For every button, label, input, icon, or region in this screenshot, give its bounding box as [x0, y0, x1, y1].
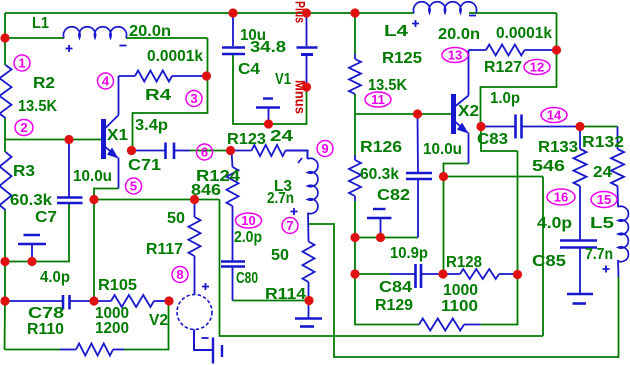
- transistor X2 emitter: [456, 122, 468, 133]
- resistor R114 top lead: [307, 213, 310, 242]
- node dot junction left rail / C78: [0, 296, 9, 305]
- resistor R117 bottom lead: [194, 256, 196, 295]
- source V2 plus mark: [202, 283, 209, 290]
- resistor R127 left lead: [469, 49, 487, 51]
- inductor L3 plus mark: [291, 208, 298, 215]
- node dot junction R128 / C83 leg: [513, 270, 522, 279]
- node dot junction top rail / V1: [302, 8, 311, 17]
- wire bottom-left loop right part: [124, 301, 169, 350]
- svg-text:C71: C71: [128, 157, 161, 174]
- wire node 5 row y=200: [94, 199, 220, 201]
- source V2: [177, 295, 212, 330]
- resistor R125: [349, 59, 361, 94]
- svg-text:10.0u: 10.0u: [73, 168, 112, 185]
- svg-text:L4: L4: [384, 23, 408, 40]
- resistor R126: [349, 160, 361, 196]
- svg-text:L5: L5: [590, 215, 614, 232]
- inductor L5: [618, 206, 628, 261]
- node number 14: [541, 108, 567, 123]
- wire R4 box right side: [133, 38, 208, 151]
- svg-text:R117: R117: [146, 241, 183, 258]
- node dot junction X2 base / C82: [413, 109, 422, 118]
- svg-text:50: 50: [271, 247, 289, 264]
- capacitor C4 top stem: [232, 13, 234, 46]
- battery V1 short plate: [301, 53, 313, 56]
- wire vertical x=355 down: [355, 238, 419, 325]
- capacitor C71 right lead: [174, 150, 190, 152]
- node number 10: [236, 213, 262, 228]
- battery symbol above node row long plate: [367, 217, 392, 219]
- battery below V2 minus mark: [202, 337, 209, 339]
- inductor L1 plus mark: [66, 45, 73, 52]
- resistor R123 right lead: [286, 151, 308, 160]
- svg-text:0.0001k: 0.0001k: [496, 25, 552, 42]
- battery V1 bottom stem: [306, 55, 308, 87]
- svg-text:1200: 1200: [95, 320, 129, 337]
- resistor R124 top lead: [232, 151, 233, 168]
- transistor X2 collector riser: [468, 50, 470, 96]
- capacitor C71: [164, 143, 167, 160]
- svg-text:24: 24: [593, 164, 612, 181]
- ground below R114 short bar: [300, 325, 314, 328]
- node number 3: [186, 91, 202, 107]
- wire R126 bottom to node 11 row: [354, 201, 356, 238]
- inductor L5 plus mark: [603, 266, 610, 273]
- wire X2 emitter to node 13: [444, 164, 469, 177]
- svg-text:10.9p: 10.9p: [390, 245, 428, 262]
- resistor R129 right lead: [464, 324, 481, 326]
- ground capacitor below C4 short plate: [263, 97, 273, 99]
- wire C80 bottom row to ground node: [233, 300, 310, 302]
- resistor R114: [303, 242, 315, 283]
- wire top rail left segment: [5, 12, 414, 14]
- capacitor C7: [57, 196, 83, 199]
- wire vertical node5 to C78 row: [93, 200, 95, 302]
- node number 6: [197, 144, 213, 160]
- svg-text:C4: C4: [238, 61, 260, 78]
- wire L1 row right to R4 box: [126, 37, 208, 39]
- wire top rail right segment: [469, 12, 557, 14]
- source V2 bottom lead: [194, 330, 213, 351]
- svg-text:C85: C85: [532, 253, 566, 270]
- transistor X2 collector: [456, 96, 469, 107]
- node dot junction C4 box / ground cap: [264, 119, 273, 128]
- svg-text:C82: C82: [377, 187, 410, 204]
- wire C83 left branch down: [481, 127, 518, 152]
- battery below V2 short plate: [221, 345, 223, 357]
- resistor R105 right lead: [154, 300, 169, 302]
- svg-text:R2: R2: [33, 75, 55, 92]
- node number 9: [317, 141, 333, 157]
- node number 16: [547, 189, 575, 205]
- capacitor C82 top stem: [417, 114, 420, 173]
- wire node row y=237 to C82 stem: [355, 237, 418, 239]
- capacitor C84: [414, 264, 417, 288]
- wire right leg down from node-5 row to bottom bus: [220, 200, 544, 337]
- node number 1: [14, 55, 30, 71]
- svg-text:C7: C7: [35, 209, 57, 226]
- node number 5: [126, 178, 142, 194]
- resistor R132: [611, 149, 624, 186]
- wire R129 right to C83 leg: [481, 151, 518, 325]
- node dot junction X2 emitter node 13: [439, 172, 448, 181]
- node dot junction x355 / C84 row: [350, 269, 359, 278]
- resistor R3: [0, 152, 12, 210]
- resistor R128 right lead: [499, 273, 518, 275]
- capacitor C78 right lead: [70, 300, 95, 302]
- svg-text:4.0p: 4.0p: [40, 269, 70, 286]
- node dot junction X1 base / C7: [64, 135, 73, 144]
- wire left rail: [4, 13, 6, 65]
- svg-text:X2: X2: [458, 103, 479, 120]
- capacitor C78: [62, 295, 65, 310]
- resistor R127 right lead: [525, 49, 557, 51]
- ground below C85 short bar: [573, 302, 587, 305]
- capacitor C85: [560, 239, 597, 242]
- ground below C85 long bar: [567, 293, 593, 296]
- wire left rail below R3: [4, 210, 7, 350]
- svg-text:1: 1: [18, 56, 25, 71]
- wire bottom-left loop: [5, 349, 61, 351]
- inductor L5 bottom lead: [617, 260, 620, 277]
- svg-text:10: 10: [241, 213, 255, 228]
- node dot junction left rail / L1 row: [0, 33, 9, 42]
- transistor X2: [451, 94, 456, 134]
- battery symbol above node row short plate: [373, 208, 386, 210]
- svg-text:1000: 1000: [443, 282, 478, 299]
- wire R125 bottom to base node: [354, 94, 356, 155]
- wire C4 ground box: [233, 55, 307, 124]
- svg-text:3: 3: [190, 91, 197, 106]
- node dot junction R4 / feedback: [202, 71, 211, 80]
- svg-text:6: 6: [201, 145, 208, 160]
- svg-text:V1: V1: [275, 71, 291, 88]
- node number 12: [524, 60, 550, 75]
- wire node to R128 left: [443, 177, 445, 275]
- node dot junction C80 row / R114 / ground: [304, 296, 313, 305]
- wire X2 emitter row y=176: [444, 176, 544, 178]
- transistor X1: [101, 119, 106, 159]
- node number 11: [365, 92, 391, 107]
- wire X1 emitter to node 5: [94, 189, 119, 200]
- wire X2 emitter bus down leg: [542, 177, 544, 337]
- wire L3 output to L5 bottom: [308, 224, 619, 357]
- svg-text:2: 2: [20, 120, 27, 135]
- resistor R127: [486, 45, 525, 56]
- resistor R128 left lead: [443, 273, 460, 275]
- resistor R110: [76, 344, 113, 356]
- node number 7: [282, 218, 298, 234]
- svg-text:7: 7: [286, 218, 293, 233]
- svg-text:R110: R110: [27, 321, 64, 338]
- node dot junction bottom row / battery symbol: [27, 257, 36, 266]
- transistor X2 emitter arrow: [457, 123, 469, 134]
- resistor R133 top lead: [579, 127, 581, 150]
- svg-text:2.7n: 2.7n: [267, 190, 294, 207]
- node dot junction node row / battery symbol: [376, 233, 385, 242]
- svg-text:L1: L1: [32, 15, 49, 32]
- svg-text:60.3k: 60.3k: [10, 192, 52, 209]
- resistor R124 bottom lead: [232, 206, 234, 262]
- svg-text:1.0p: 1.0p: [490, 90, 520, 107]
- svg-text:C78: C78: [28, 305, 64, 322]
- svg-text:60.3k: 60.3k: [360, 166, 399, 183]
- svg-text:546: 546: [532, 158, 565, 175]
- capacitor C85 bottom stem: [579, 248, 581, 294]
- svg-text:C84: C84: [379, 279, 412, 296]
- node number 8: [172, 267, 188, 283]
- svg-text:16: 16: [554, 190, 568, 205]
- resistor R132 top lead: [617, 127, 619, 150]
- node dot junction R126 / node row: [350, 233, 359, 242]
- svg-text:V2: V2: [149, 312, 168, 329]
- node dot junction R105 / V2 branch: [164, 296, 173, 305]
- resistor R110 right lead: [113, 349, 124, 351]
- svg-text:3.4p: 3.4p: [135, 117, 168, 134]
- node dot junction C83 / R133 node 14: [575, 122, 584, 131]
- wire left rail between R2 and R3: [4, 118, 6, 152]
- resistor R4 left lead: [119, 75, 136, 77]
- node dot junction top rail / R125: [350, 8, 359, 17]
- svg-text:20.0n: 20.0n: [129, 23, 171, 40]
- node dot junction node 5 row / vertical: [89, 195, 98, 204]
- wire L1 row left: [5, 37, 64, 39]
- resistor R117: [189, 217, 201, 256]
- svg-text:8: 8: [176, 267, 183, 282]
- resistor R124: [227, 167, 239, 206]
- wire C84 row left: [355, 273, 390, 275]
- transistor X1 emitter arrow: [107, 148, 119, 159]
- wire R127 feedback right leg: [481, 13, 557, 127]
- resistor R4 right lead: [172, 75, 207, 77]
- battery symbol below C7: [24, 234, 41, 236]
- battery below V2 long plate: [212, 338, 214, 364]
- capacitor C84 right lead: [421, 273, 443, 275]
- svg-text:R126: R126: [360, 139, 402, 156]
- node number 2: [15, 120, 33, 136]
- capacitor C82: [406, 172, 432, 175]
- svg-text:R133: R133: [538, 139, 578, 156]
- svg-text:1100: 1100: [441, 298, 478, 315]
- transistor X2 emitter tail: [468, 133, 470, 164]
- capacitor C78 left lead: [5, 300, 63, 302]
- node dot junction R127 / feedback: [552, 45, 561, 54]
- inductor L3: [308, 158, 318, 213]
- capacitor C71 left lead: [132, 150, 166, 152]
- svg-text:R132: R132: [582, 134, 624, 151]
- capacitor C7 top stem: [68, 140, 70, 198]
- wire node 14 to R132: [580, 126, 618, 128]
- svg-text:R4: R4: [145, 87, 171, 104]
- svg-text:20.0n: 20.0n: [438, 26, 480, 43]
- svg-text:R128: R128: [446, 254, 482, 271]
- inductor L5 top lead: [617, 186, 620, 207]
- resistor R128: [460, 269, 499, 279]
- svg-text:R123: R123: [227, 131, 266, 148]
- node dot junction R123 / R124: [226, 146, 235, 155]
- inductor L4: [413, 2, 476, 13]
- node dot junction C83 left node: [476, 122, 485, 131]
- svg-text:R114: R114: [265, 286, 306, 303]
- node dot junction node 5 row / R117: [190, 195, 199, 204]
- transistor X1 emitter tail: [118, 158, 120, 189]
- svg-text:4.0p: 4.0p: [537, 215, 572, 232]
- resistor R2: [0, 65, 12, 118]
- wire bottom-left row y=261: [5, 203, 69, 262]
- wire X2 base: [355, 113, 451, 115]
- capacitor C85 top stem: [579, 186, 581, 241]
- node dot junction top rail / C4: [228, 8, 237, 17]
- resistor R114 bottom lead: [308, 282, 310, 301]
- svg-text:10.0u: 10.0u: [423, 141, 462, 158]
- svg-text:2.0p: 2.0p: [234, 229, 262, 246]
- capacitor C83 left lead: [481, 126, 516, 128]
- node number 4: [98, 73, 114, 89]
- svg-text:R3: R3: [13, 163, 35, 180]
- svg-text:R105: R105: [98, 277, 137, 294]
- wire X1 base: [5, 139, 101, 141]
- node dot junction C84 / R128: [438, 269, 447, 278]
- node dot junction left rail / bottom row: [0, 257, 9, 266]
- transistor X1 collector riser: [118, 76, 120, 115]
- svg-text:11: 11: [371, 92, 385, 107]
- svg-text:C83: C83: [477, 131, 508, 148]
- resistor R129: [419, 319, 464, 331]
- resistor R123: [252, 145, 286, 156]
- ground below R114 long bar: [295, 317, 322, 320]
- capacitor C83 right lead: [522, 126, 581, 128]
- node dot junction node 5 / C71: [127, 146, 136, 155]
- svg-text:4: 4: [102, 74, 110, 89]
- capacitor C82 bottom stem: [417, 179, 419, 238]
- inductor L4 minus mark: [469, 15, 476, 17]
- resistor R117 top lead: [194, 200, 196, 218]
- wire node 6 to R123: [190, 150, 231, 152]
- resistor R105 left lead: [94, 300, 111, 302]
- svg-text:0.0001k: 0.0001k: [147, 48, 203, 65]
- svg-text:34.8: 34.8: [250, 39, 286, 56]
- resistor R126 leads: [354, 155, 356, 160]
- resistor R110 left lead: [60, 349, 76, 351]
- battery V1 long plate: [297, 46, 318, 48]
- node number 15: [591, 192, 617, 208]
- ground capacitor below C4 stem: [268, 108, 270, 125]
- svg-text:13.5K: 13.5K: [18, 98, 57, 115]
- svg-text:5: 5: [130, 179, 137, 194]
- resistor R4: [135, 71, 172, 82]
- svg-text:14: 14: [547, 108, 562, 123]
- resistor R123 left lead: [231, 150, 252, 152]
- svg-text:R127: R127: [484, 59, 522, 76]
- capacitor C4: [222, 46, 245, 49]
- capacitor C80: [221, 260, 245, 263]
- resistor R125 top lead: [354, 54, 356, 59]
- battery symbol stem: [380, 218, 382, 238]
- wire V+ rail to R125: [354, 13, 356, 54]
- svg-text:15: 15: [597, 192, 611, 207]
- transistor X1 emitter: [106, 147, 118, 158]
- inductor L4 plus mark: [412, 20, 419, 27]
- svg-text:13: 13: [448, 48, 462, 63]
- svg-text:R129: R129: [375, 297, 413, 314]
- svg-text:12: 12: [530, 60, 544, 75]
- ground below R114 stem: [308, 301, 310, 318]
- inductor L3 polarity tick: [298, 158, 302, 163]
- resistor R105: [111, 295, 154, 307]
- node dot junction V1 minus: [302, 82, 311, 91]
- svg-text:X1: X1: [107, 127, 128, 144]
- node dot junction C78 / R105: [89, 296, 98, 305]
- inductor L1: [63, 27, 126, 38]
- svg-text:C80: C80: [236, 270, 258, 287]
- capacitor C83: [514, 115, 517, 139]
- svg-text:R125: R125: [382, 50, 422, 67]
- inductor L1 minus mark: [120, 45, 127, 47]
- capacitor C84 left lead: [390, 273, 416, 275]
- resistor R133: [574, 149, 587, 186]
- svg-text:50: 50: [167, 210, 185, 227]
- svg-text:7.7n: 7.7n: [585, 246, 613, 263]
- svg-text:24: 24: [270, 128, 293, 145]
- node number 13: [442, 48, 468, 63]
- svg-text:9: 9: [321, 141, 328, 156]
- ground capacitor below C4 long plate: [256, 106, 280, 108]
- transistor X1 collector: [106, 115, 119, 128]
- capacitor C80 bottom stem: [232, 267, 234, 301]
- battery V1 top stem: [306, 13, 308, 46]
